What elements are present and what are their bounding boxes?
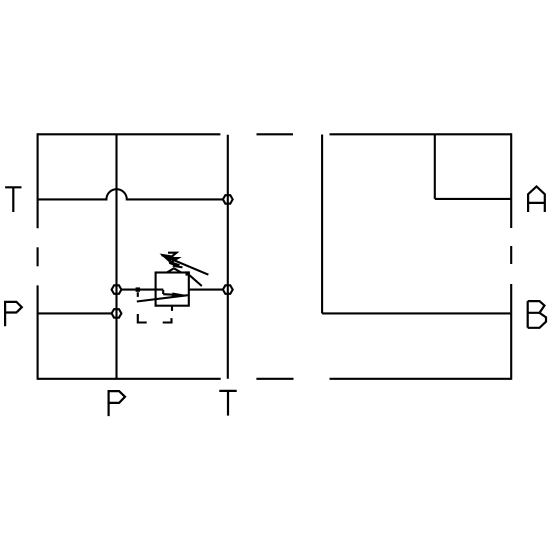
relief valve RV1 spring zigzag [168, 253, 183, 268]
relief valve RV1 internal arrow shaft [163, 293, 176, 296]
node: T line junction circle on T channel [223, 195, 233, 203]
wire: relief valve outlet line [189, 289, 223, 291]
relief valve RV1 adjustment arrowhead [160, 254, 175, 263]
wire: A port line (notch horizontal) [435, 198, 511, 200]
port label T (left) [5, 187, 21, 212]
right block notch vertical [434, 134, 436, 199]
plate outline: left edge lower segment [37, 285, 39, 379]
node: spring linkage dot at valve corner [186, 271, 190, 275]
relief valve RV1 adjustment arrow shaft [162, 255, 209, 275]
plate outline: top dashed link between blocks [257, 133, 294, 135]
port label P (left) [5, 302, 22, 326]
plate outline: left edge dash [37, 247, 39, 266]
node: valve outlet junction circle on T channel [223, 285, 233, 293]
wire: dashed pilot line corner c [163, 318, 172, 322]
node: valve inlet junction circle on P channel [112, 285, 122, 293]
wire: B port line [322, 312, 511, 314]
node: pilot tap junction dot [136, 287, 140, 291]
relief valve RV1 spring seat chevron [167, 268, 181, 272]
relief valve RV1 internal tilted line through body [137, 295, 188, 301]
wire: relief valve inlet line [121, 289, 163, 291]
plate outline: right edge lower segment [510, 284, 512, 380]
node: P line junction circle on P channel [112, 309, 122, 317]
wire: diagonal link from valve corner [188, 274, 202, 286]
wire: P port line [38, 312, 112, 314]
port label T (bottom) [219, 391, 236, 416]
wire: dashed pilot line stub d below valve [171, 306, 173, 311]
wire: T port line with hop over P channel [38, 189, 223, 199]
relief valve RV1 internal arrow jog tick [162, 290, 164, 294]
port label B (right) [528, 301, 546, 328]
relief valve RV1 internal arrowhead [172, 293, 189, 298]
plate outline: bottom edge of left block [38, 378, 221, 380]
plate outline: top edge of left block [38, 133, 221, 135]
plate outline: top edge of right block [330, 133, 512, 135]
plate outline: bottom edge of right block [330, 378, 512, 380]
plate outline: bottom dashed link between blocks [256, 378, 293, 380]
wire: P channel vertical line [115, 134, 117, 378]
port label A (right) [528, 187, 545, 213]
wire: dashed pilot line segment a [137, 292, 139, 297]
wire: T channel vertical line [227, 135, 229, 379]
plate outline: right edge upper segment [510, 133, 512, 228]
right block left edge vertical [321, 135, 323, 314]
plate outline: right edge dash [510, 246, 512, 264]
wire: dashed pilot line corner b [138, 314, 147, 323]
plate outline: left edge upper segment [37, 133, 39, 228]
port label P (bottom) [109, 391, 125, 416]
relief valve RV1 body square [156, 273, 189, 306]
